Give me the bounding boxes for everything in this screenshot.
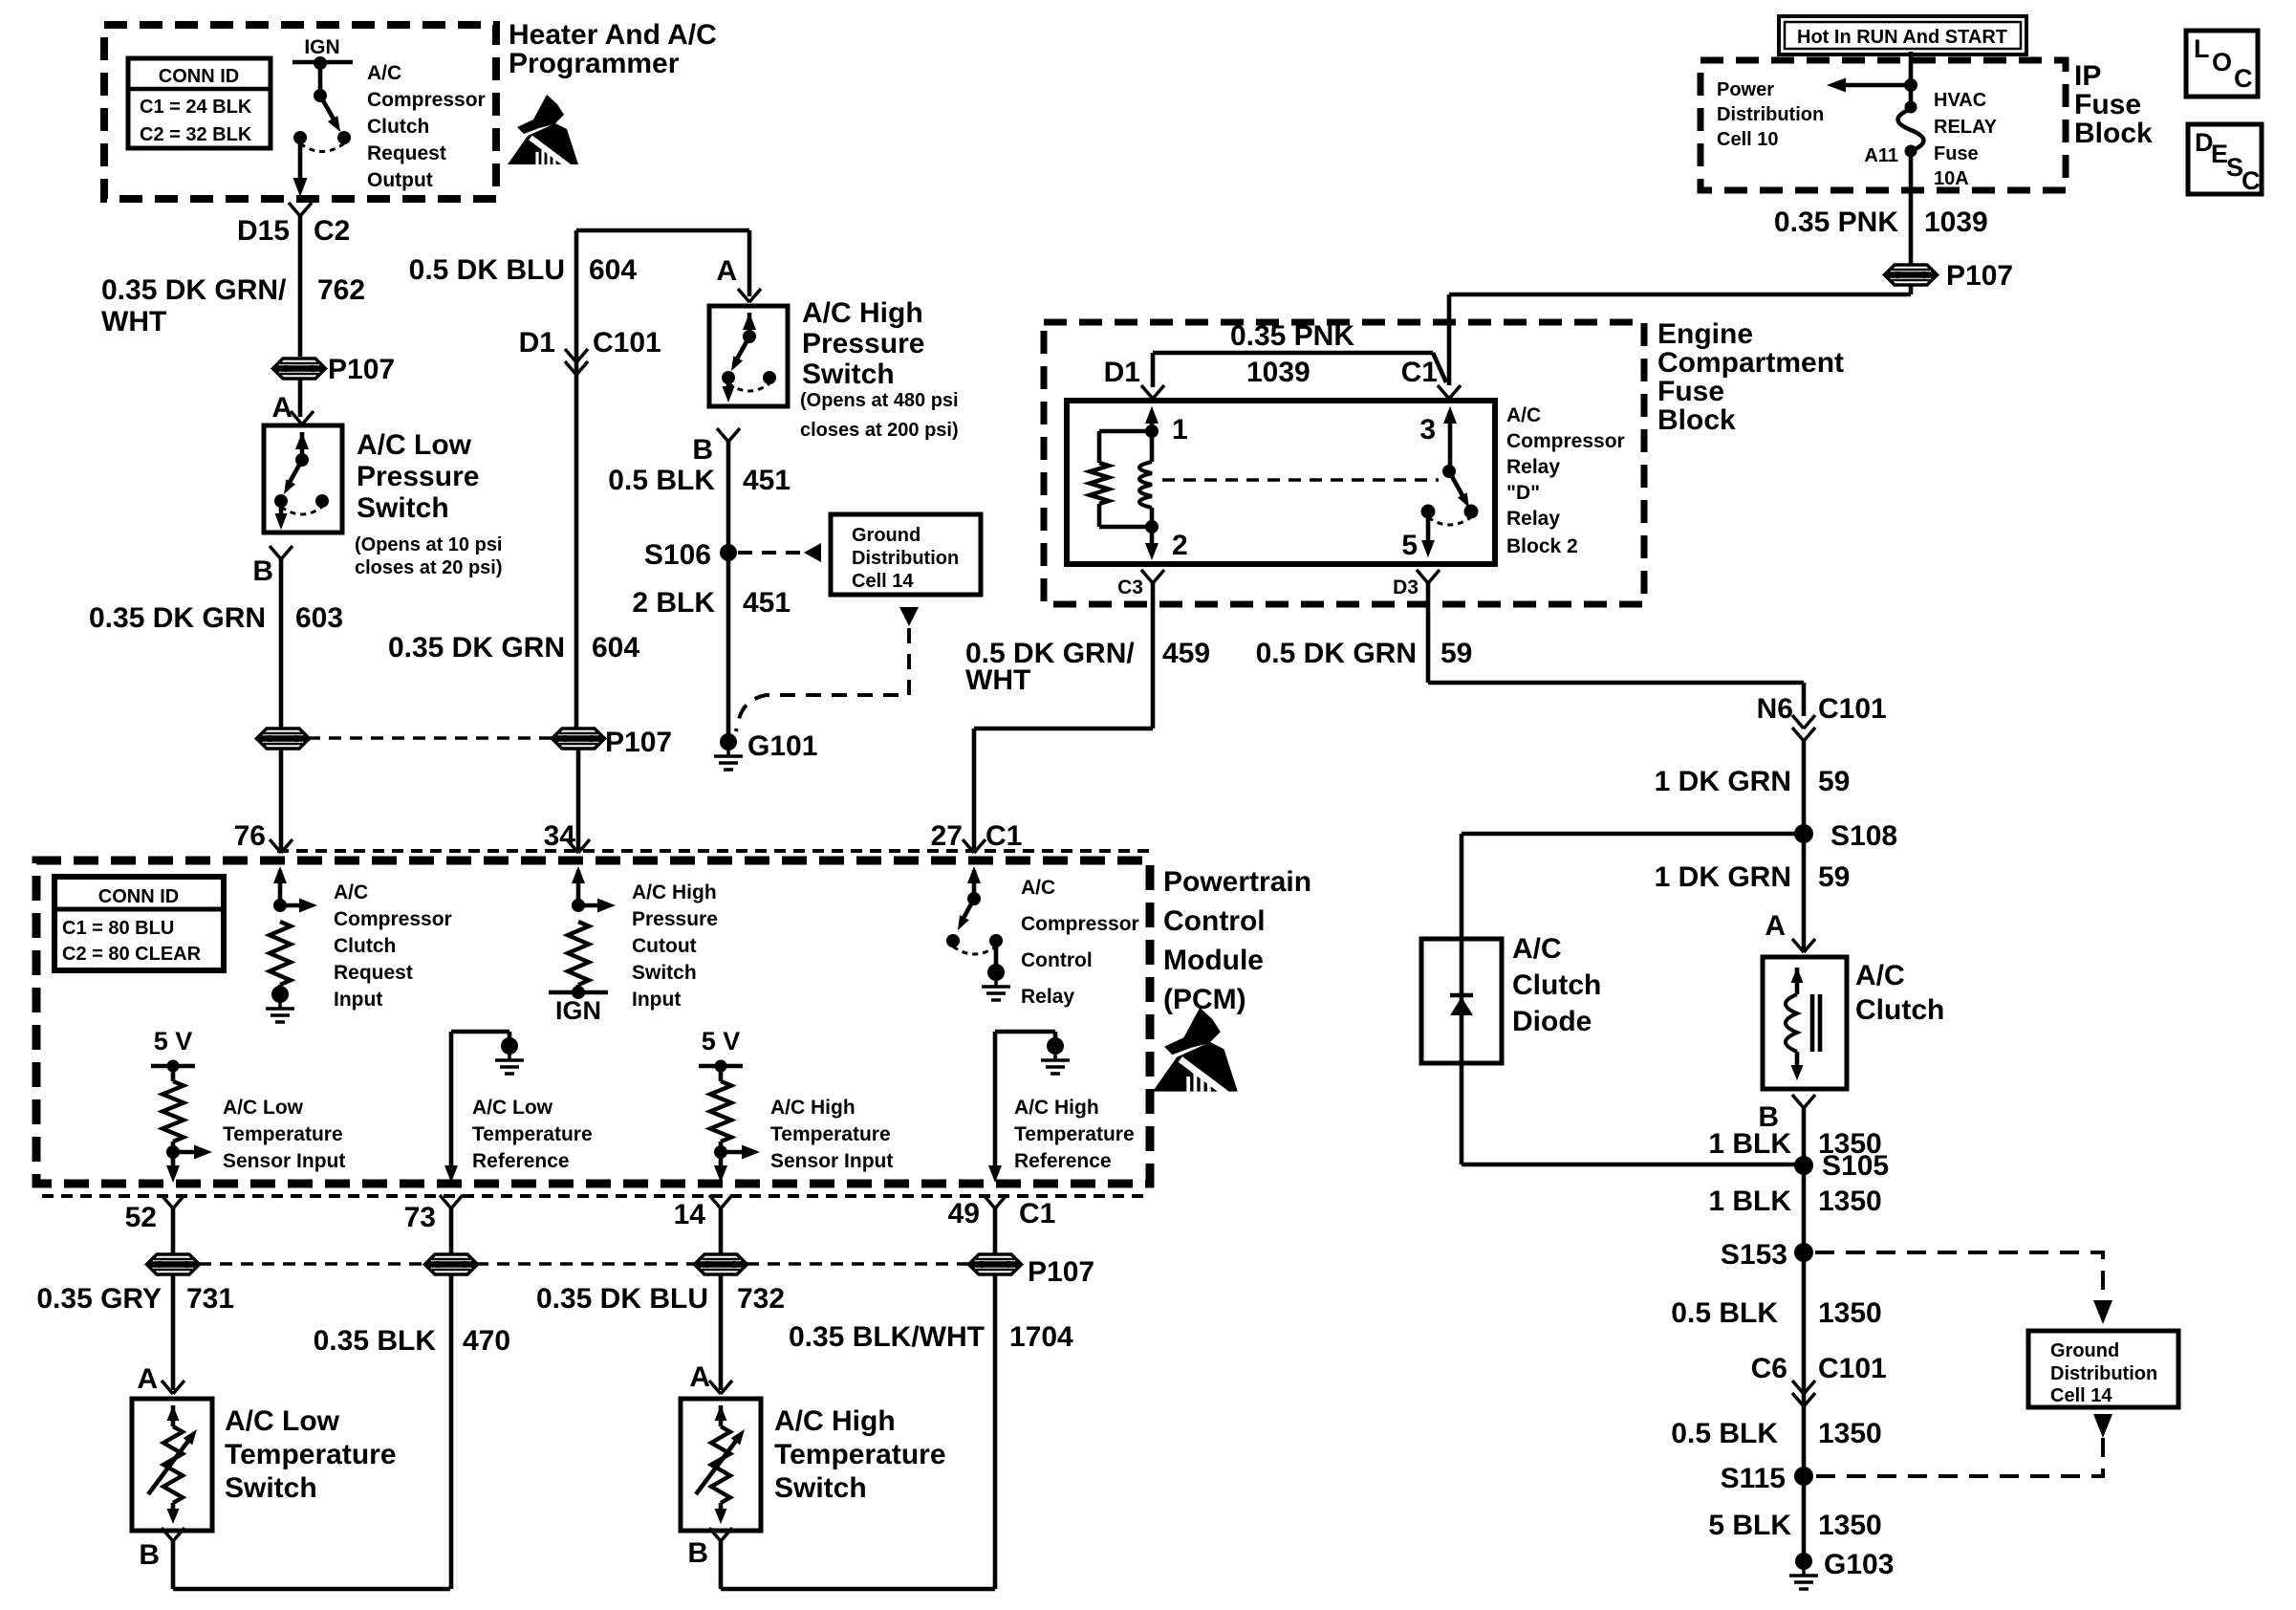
svg-text:Temperature: Temperature xyxy=(1014,1123,1135,1145)
svg-text:P107: P107 xyxy=(328,354,395,385)
svg-text:Fuse: Fuse xyxy=(1934,143,1979,164)
wire 451 xyxy=(726,442,731,742)
svg-text:0.35 PNK: 0.35 PNK xyxy=(1230,320,1354,352)
leg pin 34: arrow xyxy=(572,866,585,883)
svg-text:A/C High: A/C High xyxy=(1014,1097,1099,1119)
svg-text:1350: 1350 xyxy=(1818,1297,1882,1329)
svg-text:Compressor: Compressor xyxy=(1506,430,1625,452)
svg-text:59: 59 xyxy=(1818,861,1850,893)
PCM pin 52 chevron xyxy=(162,1195,173,1208)
pin B chevron xyxy=(717,428,728,442)
wire B to 470 xyxy=(171,1541,176,1589)
svg-text:1350: 1350 xyxy=(1818,1418,1882,1449)
leg pin 27: arrow xyxy=(967,866,981,883)
svg-text:S106: S106 xyxy=(644,539,711,571)
CONN ID table (PCM) xyxy=(54,877,224,970)
svg-text:D15: D15 xyxy=(237,215,290,247)
A/C Compressor Relay box xyxy=(1067,401,1495,564)
svg-text:1350: 1350 xyxy=(1818,1510,1882,1541)
svg-text:HVAC: HVAC xyxy=(1934,90,1986,111)
wire 470 xyxy=(449,1208,454,1589)
svg-text:0.35 DK GRN: 0.35 DK GRN xyxy=(89,602,266,634)
splice S105 xyxy=(1794,1156,1813,1175)
svg-text:0.5 BLK: 0.5 BLK xyxy=(1671,1418,1778,1449)
Ground Distribution Cell 14 box (lower) xyxy=(2028,1331,2178,1407)
splice S106 xyxy=(720,544,737,561)
svg-text:Output: Output xyxy=(367,169,433,191)
fuse HVAC RELAY Fuse 10A xyxy=(1905,101,1917,114)
svg-text:Relay: Relay xyxy=(1021,986,1074,1008)
A/C Low Temperature Switch xyxy=(132,1399,212,1531)
svg-text:Distribution: Distribution xyxy=(852,548,959,569)
pin B chevron xyxy=(270,546,281,559)
svg-text:C101: C101 xyxy=(593,327,661,359)
svg-text:Compressor: Compressor xyxy=(367,89,486,111)
leg 34 resistor xyxy=(568,922,589,985)
svg-text:0.35 PNK: 0.35 PNK xyxy=(1774,207,1898,238)
svg-text:RELAY: RELAY xyxy=(1934,117,1998,138)
svg-text:1 BLK: 1 BLK xyxy=(1708,1128,1791,1160)
PCM pin 49/C1 chevron xyxy=(984,1195,995,1208)
svg-text:0.5 BLK: 0.5 BLK xyxy=(1671,1297,1778,1329)
wire 0.35 PNK 1039 (relay jumper) xyxy=(1151,353,1156,387)
A/C High Temperature Switch xyxy=(681,1399,761,1531)
wire from hot feed xyxy=(1909,52,1914,105)
svg-text:Cell 14: Cell 14 xyxy=(852,571,914,592)
dashed arrow below box to G101 xyxy=(899,607,919,626)
svg-text:Sensor Input: Sensor Input xyxy=(223,1150,345,1172)
connector P107 (wire 732) xyxy=(696,1254,746,1263)
svg-text:0.35 BLK/WHT: 0.35 BLK/WHT xyxy=(789,1321,985,1353)
svg-text:Control: Control xyxy=(1163,905,1266,937)
svg-text:A/C Low: A/C Low xyxy=(357,429,472,461)
svg-text:IP: IP xyxy=(2074,60,2101,92)
svg-text:732: 732 xyxy=(737,1283,785,1315)
svg-text:Powertrain: Powertrain xyxy=(1163,866,1311,898)
svg-text:451: 451 xyxy=(743,465,791,496)
svg-text:C1 = 24 BLK: C1 = 24 BLK xyxy=(140,97,252,118)
svg-text:Clutch: Clutch xyxy=(367,116,429,138)
svg-text:closes at 20 psi): closes at 20 psi) xyxy=(355,557,503,578)
svg-text:52: 52 xyxy=(125,1202,157,1233)
svg-text:B: B xyxy=(692,434,713,466)
svg-text:Control: Control xyxy=(1021,949,1093,971)
svg-text:A: A xyxy=(716,255,737,287)
svg-text:Diode: Diode xyxy=(1512,1006,1592,1037)
wire 604 corner xyxy=(576,228,749,233)
svg-text:S108: S108 xyxy=(1830,820,1897,852)
wire to PCM pin 76 xyxy=(279,749,284,851)
svg-text:Heater And A/C: Heater And A/C xyxy=(509,19,717,51)
svg-text:D1: D1 xyxy=(519,327,555,359)
svg-text:2: 2 xyxy=(1172,530,1188,561)
svg-text:Input: Input xyxy=(632,989,681,1011)
PCM pin 73 chevron xyxy=(440,1195,451,1208)
relay pin 5 xyxy=(1426,511,1431,550)
wire to A/C clutch diode (top) xyxy=(1462,832,1804,837)
svg-text:"D": "D" xyxy=(1506,482,1540,504)
svg-text:A/C High: A/C High xyxy=(632,881,717,903)
wire 59 (engine) xyxy=(1426,583,1431,683)
svg-text:1: 1 xyxy=(1172,414,1188,446)
svg-text:5 V: 5 V xyxy=(702,1027,741,1055)
wire 1039 (IP) xyxy=(1909,153,1914,264)
DESC tab xyxy=(2188,124,2262,194)
svg-text:1 DK GRN: 1 DK GRN xyxy=(1655,861,1791,893)
svg-text:Switch: Switch xyxy=(632,962,697,984)
clutch plates xyxy=(1810,994,1815,1052)
svg-text:D3: D3 xyxy=(1393,577,1419,598)
svg-text:Reference: Reference xyxy=(1014,1150,1112,1172)
Ground Distribution Cell 14 box (upper) xyxy=(831,514,981,595)
svg-text:Sensor Input: Sensor Input xyxy=(770,1150,893,1172)
LOC tab xyxy=(2186,31,2258,97)
svg-text:Distribution: Distribution xyxy=(1717,104,1824,125)
svg-text:WHT: WHT xyxy=(965,664,1030,696)
svg-text:Block: Block xyxy=(2074,118,2153,149)
svg-text:C101: C101 xyxy=(1818,1353,1887,1384)
A/C Clutch xyxy=(1763,957,1847,1089)
svg-text:A/C: A/C xyxy=(1506,404,1541,426)
svg-text:A/C: A/C xyxy=(367,62,401,84)
switch A/C Compressor Clutch Request Output xyxy=(314,56,327,70)
svg-text:3: 3 xyxy=(1419,414,1436,446)
svg-text:Compartment: Compartment xyxy=(1657,347,1844,379)
relay switch arm xyxy=(962,899,974,922)
svg-text:(Opens at 10 psi: (Opens at 10 psi xyxy=(355,534,503,555)
wire 1039 to relay C1 xyxy=(1909,285,1914,294)
wire 59 lower xyxy=(1802,741,1807,834)
svg-text:P107: P107 xyxy=(1028,1256,1094,1288)
svg-text:A/C High: A/C High xyxy=(802,297,923,329)
Heater And A/C Programmer dashed box xyxy=(104,25,496,199)
svg-text:Hot In RUN And START: Hot In RUN And START xyxy=(1797,27,2007,48)
svg-text:A/C: A/C xyxy=(1855,960,1905,991)
dashed link between P107 halves xyxy=(308,736,553,740)
svg-text:Request: Request xyxy=(334,962,413,984)
svg-text:1 DK GRN: 1 DK GRN xyxy=(1655,766,1791,797)
svg-text:Ground: Ground xyxy=(2050,1340,2119,1361)
svg-text:A/C: A/C xyxy=(334,881,368,903)
svg-text:Temperature: Temperature xyxy=(770,1123,891,1145)
PCM connector face dashed line (top) xyxy=(277,849,1150,853)
svg-text:Clutch: Clutch xyxy=(334,935,396,957)
svg-text:Input: Input xyxy=(334,989,382,1011)
ESD symbol (programmer) xyxy=(508,95,578,166)
Hot In RUN And START box xyxy=(1779,16,2026,54)
svg-text:Temperature: Temperature xyxy=(225,1439,397,1470)
relay pin D1 chevron xyxy=(1141,385,1153,399)
leg 49: reference ground xyxy=(995,1030,1055,1034)
svg-text:A11: A11 xyxy=(1864,145,1898,166)
svg-text:C1: C1 xyxy=(986,820,1022,852)
PCM connector face dashed line (bottom) xyxy=(42,1194,1150,1198)
svg-text:Relay: Relay xyxy=(1506,508,1560,530)
svg-text:1039: 1039 xyxy=(1924,207,1988,238)
svg-text:0.35 DK GRN: 0.35 DK GRN xyxy=(388,632,565,664)
wire to PCM pin 34 xyxy=(576,749,581,851)
svg-text:0.35 DK GRN/: 0.35 DK GRN/ xyxy=(101,274,287,306)
svg-text:459: 459 xyxy=(1162,638,1210,669)
IGN bar (leg 34) xyxy=(549,990,608,995)
svg-text:Compressor: Compressor xyxy=(1021,913,1139,935)
dashed reference box to S115 xyxy=(2093,1414,2112,1438)
A/C High Pressure Switch xyxy=(709,306,788,406)
svg-text:C6: C6 xyxy=(1751,1353,1787,1384)
svg-text:IGN: IGN xyxy=(555,996,601,1025)
svg-text:A: A xyxy=(1765,910,1786,942)
leg 73: reference ground xyxy=(451,1030,509,1034)
svg-text:0.35 DK BLU: 0.35 DK BLU xyxy=(536,1283,708,1315)
leg 76 ground xyxy=(271,986,289,1003)
svg-text:451: 451 xyxy=(743,587,791,619)
svg-text:Fuse: Fuse xyxy=(2074,89,2141,120)
pin B chevron (low temp switch) xyxy=(162,1528,173,1541)
relay coil suppression resistor xyxy=(1099,429,1152,434)
PCM pin 14 chevron xyxy=(709,1195,721,1208)
IGN bar xyxy=(292,60,353,65)
svg-text:S115: S115 xyxy=(1721,1463,1786,1494)
svg-text:Clutch: Clutch xyxy=(1855,994,1944,1026)
svg-text:604: 604 xyxy=(592,632,639,664)
connector P107 (wire 1704) xyxy=(970,1254,1020,1263)
svg-text:76: 76 xyxy=(234,820,266,852)
svg-text:A/C Low: A/C Low xyxy=(225,1405,340,1437)
relay pin D3 chevron xyxy=(1417,570,1428,583)
wire 1350 (clutch to G103) xyxy=(1802,1108,1807,1561)
splice S153 xyxy=(1794,1243,1813,1262)
svg-text:P107: P107 xyxy=(605,727,672,758)
svg-text:C2 = 80 CLEAR: C2 = 80 CLEAR xyxy=(62,944,202,965)
svg-text:C3: C3 xyxy=(1117,577,1143,598)
wire 1704 xyxy=(993,1208,998,1589)
relay pin 3 / switch xyxy=(1443,406,1457,424)
svg-text:O: O xyxy=(2212,48,2232,76)
svg-text:Pressure: Pressure xyxy=(632,908,718,930)
svg-text:N6: N6 xyxy=(1757,693,1793,725)
svg-text:14: 14 xyxy=(674,1199,706,1230)
svg-text:470: 470 xyxy=(463,1325,510,1357)
arrow to power distribution xyxy=(1843,83,1911,88)
leg 76 resistor xyxy=(270,922,291,985)
svg-text:0.35 BLK: 0.35 BLK xyxy=(314,1325,437,1357)
svg-text:A/C: A/C xyxy=(1512,933,1562,965)
wire 762 xyxy=(298,216,303,357)
dashed reference to ground distribution xyxy=(738,551,804,555)
svg-text:762: 762 xyxy=(317,274,365,306)
svg-text:0.35 GRY: 0.35 GRY xyxy=(36,1283,162,1315)
PCM pin 76 chevron xyxy=(270,839,281,853)
svg-text:S153: S153 xyxy=(1721,1239,1787,1271)
relay pin 1 xyxy=(1145,406,1159,424)
svg-text:WHT: WHT xyxy=(101,306,166,337)
A/C Clutch Diode xyxy=(1460,834,1464,939)
svg-text:0.5 BLK: 0.5 BLK xyxy=(608,465,715,496)
svg-text:CONN ID: CONN ID xyxy=(98,886,179,907)
svg-text:D1: D1 xyxy=(1104,357,1140,388)
svg-text:603: 603 xyxy=(295,602,343,634)
connector D15/C2 xyxy=(289,203,300,216)
svg-text:2 BLK: 2 BLK xyxy=(632,587,715,619)
svg-text:A/C High: A/C High xyxy=(770,1097,856,1119)
svg-text:Fuse: Fuse xyxy=(1657,376,1724,407)
svg-text:Switch: Switch xyxy=(225,1472,317,1504)
svg-text:5 BLK: 5 BLK xyxy=(1708,1510,1791,1541)
wire to A/C low pressure switch xyxy=(298,379,303,417)
IP fuse block dashed box xyxy=(1700,60,2066,190)
svg-text:Switch: Switch xyxy=(357,492,449,524)
PCM pin 34 chevron xyxy=(567,839,578,853)
svg-text:34: 34 xyxy=(544,820,576,852)
svg-text:Relay: Relay xyxy=(1506,456,1560,478)
dashed reference S153 to ground distribution xyxy=(1815,1252,2103,1293)
wire B to 1704 xyxy=(719,1541,724,1589)
svg-text:73: 73 xyxy=(404,1202,436,1233)
svg-text:S105: S105 xyxy=(1822,1150,1889,1182)
svg-text:A/C Low: A/C Low xyxy=(223,1097,304,1119)
relay dashed actuation link xyxy=(1162,478,1439,482)
svg-text:Pressure: Pressure xyxy=(357,461,479,492)
svg-text:Power: Power xyxy=(1717,79,1774,100)
svg-text:C1 = 80 BLU: C1 = 80 BLU xyxy=(62,918,174,939)
relay leg ground xyxy=(987,964,1005,981)
connector P107 (wire 762) xyxy=(274,359,324,367)
svg-text:(PCM): (PCM) xyxy=(1163,984,1246,1015)
svg-text:A/C High: A/C High xyxy=(774,1405,896,1437)
svg-text:Block: Block xyxy=(1657,404,1736,436)
svg-text:Cell 10: Cell 10 xyxy=(1717,129,1778,150)
svg-text:C: C xyxy=(2242,166,2261,195)
svg-text:Switch: Switch xyxy=(774,1472,867,1504)
svg-text:Engine: Engine xyxy=(1657,318,1753,350)
connector P107 (wire 1039) xyxy=(1886,265,1936,273)
svg-text:Block 2: Block 2 xyxy=(1506,535,1578,557)
svg-text:A/C: A/C xyxy=(1021,877,1055,899)
splice S108 xyxy=(1802,834,1807,950)
svg-text:5: 5 xyxy=(1401,530,1418,561)
svg-text:604: 604 xyxy=(589,254,637,286)
svg-text:C: C xyxy=(2234,64,2253,93)
dashed links between P107 connectors xyxy=(199,1262,424,1266)
svg-text:Switch: Switch xyxy=(802,359,895,390)
svg-text:A: A xyxy=(689,1361,710,1393)
svg-text:C1: C1 xyxy=(1401,357,1438,388)
relay pin C1 chevron xyxy=(1438,385,1449,399)
svg-text:B: B xyxy=(139,1539,160,1571)
relay coil xyxy=(1150,431,1155,462)
A/C Low Pressure Switch xyxy=(264,425,342,533)
splice S115 xyxy=(1794,1467,1813,1486)
wire 731 xyxy=(171,1208,176,1390)
svg-text:Compressor: Compressor xyxy=(334,908,452,930)
Powertrain Control Module dashed box xyxy=(36,860,1150,1184)
svg-text:B: B xyxy=(687,1537,708,1569)
svg-text:A: A xyxy=(137,1363,158,1395)
ground G101 xyxy=(720,733,737,751)
connector P107 (wire 603) xyxy=(258,729,308,737)
svg-text:P107: P107 xyxy=(1946,260,2013,292)
svg-text:Temperature: Temperature xyxy=(472,1123,593,1145)
svg-text:Module: Module xyxy=(1163,945,1264,976)
wire 732 xyxy=(719,1208,724,1390)
wire request output xyxy=(298,138,303,189)
pin A chevron xyxy=(291,411,302,424)
svg-text:10A: 10A xyxy=(1934,168,1969,189)
svg-text:1704: 1704 xyxy=(1009,1321,1073,1353)
wire 603 xyxy=(279,559,284,729)
svg-text:1350: 1350 xyxy=(1818,1186,1882,1217)
signal tap arrow xyxy=(280,903,300,908)
svg-text:C2: C2 xyxy=(314,215,350,247)
svg-text:C1: C1 xyxy=(1019,1198,1055,1229)
svg-text:Temperature: Temperature xyxy=(774,1439,946,1470)
relay pin 2 xyxy=(1150,527,1155,553)
pin B chevron (high temp switch) xyxy=(709,1528,721,1541)
relay pin C3 chevron xyxy=(1141,570,1153,583)
svg-text:L: L xyxy=(2194,34,2210,63)
svg-text:G101: G101 xyxy=(747,730,817,762)
svg-text:Programmer: Programmer xyxy=(509,48,680,79)
ESD symbol (PCM) xyxy=(1153,1008,1238,1094)
pin B chevron (clutch) xyxy=(1792,1095,1804,1108)
svg-text:59: 59 xyxy=(1818,766,1850,797)
svg-text:B: B xyxy=(252,555,273,587)
svg-text:1 BLK: 1 BLK xyxy=(1708,1186,1791,1217)
svg-text:IGN: IGN xyxy=(304,36,339,58)
svg-text:5 V: 5 V xyxy=(154,1027,193,1055)
svg-text:731: 731 xyxy=(186,1283,234,1315)
svg-text:Request: Request xyxy=(367,142,446,164)
CONN ID table (programmer) xyxy=(128,58,271,148)
svg-text:Clutch: Clutch xyxy=(1512,969,1601,1001)
connector P107 (wire 470) xyxy=(426,1254,476,1263)
svg-text:C2 = 32 BLK: C2 = 32 BLK xyxy=(140,124,252,145)
connector P107 (wire 731) xyxy=(148,1254,198,1263)
connector P107 (wire 604) xyxy=(553,729,603,737)
svg-text:closes at 200 psi): closes at 200 psi) xyxy=(800,420,959,441)
svg-text:0.5 DK GRN: 0.5 DK GRN xyxy=(1256,638,1417,669)
svg-text:Cutout: Cutout xyxy=(632,935,697,957)
svg-text:Cell 14: Cell 14 xyxy=(2050,1385,2112,1406)
svg-text:Distribution: Distribution xyxy=(2050,1363,2157,1384)
svg-text:(Opens at 480 psi: (Opens at 480 psi xyxy=(800,390,959,411)
svg-text:27: 27 xyxy=(931,820,963,852)
wire 459 xyxy=(1151,583,1156,729)
svg-text:59: 59 xyxy=(1440,638,1472,669)
svg-text:C101: C101 xyxy=(1818,693,1887,725)
svg-text:G103: G103 xyxy=(1824,1549,1894,1580)
svg-text:A: A xyxy=(271,392,292,424)
svg-text:49: 49 xyxy=(948,1198,980,1229)
PCM pin 27 chevron xyxy=(963,839,974,853)
svg-text:A/C Low: A/C Low xyxy=(472,1097,553,1119)
wire diode bottom xyxy=(1460,1063,1464,1164)
svg-text:CONN ID: CONN ID xyxy=(159,66,239,87)
Engine Compartment Fuse Block dashed box xyxy=(1044,322,1644,604)
svg-text:Pressure: Pressure xyxy=(802,328,924,359)
ground G103 xyxy=(1795,1553,1812,1570)
svg-text:0.5 DK BLU: 0.5 DK BLU xyxy=(409,254,565,286)
leg pin 76: arrow xyxy=(273,866,287,883)
svg-text:Temperature: Temperature xyxy=(223,1123,343,1145)
svg-text:Reference: Reference xyxy=(472,1150,570,1172)
svg-text:1039: 1039 xyxy=(1246,357,1310,388)
svg-text:Ground: Ground xyxy=(852,525,921,546)
